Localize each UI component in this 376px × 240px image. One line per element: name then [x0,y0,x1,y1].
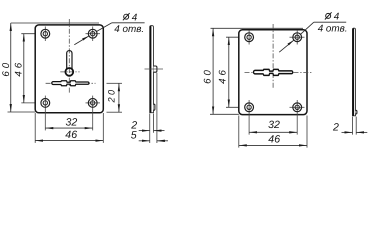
ext lines 2 r [352,117,354,135]
svg-text:4: 4 [132,12,138,23]
svg-text:4 отв.: 4 отв. [114,24,144,35]
leader line plate2 [279,40,294,52]
key profile cutout plate1 [52,81,89,86]
vertical centerline plate1 [68,19,70,94]
hole bottom-left p2 [245,103,254,112]
leader arrow plate1 [82,36,89,41]
plate 1 outline [35,25,103,113]
svg-text:46: 46 [268,133,280,145]
hole top-right [88,29,97,38]
ext lines 2/5 [149,114,151,144]
side bar plate1 [150,26,154,113]
vertical centerline plate2 [272,24,274,89]
side bar thick edge [150,26,152,113]
dim 2 side1 [139,130,150,132]
keyhole circle [65,68,73,76]
side centerline [145,68,164,70]
svg-text:20: 20 [107,87,117,103]
side bar plate2 [353,28,356,116]
hole crosshairs plate1 [45,27,100,131]
top extension line [11,22,99,24]
svg-text:60: 60 [1,60,12,77]
side bottom foot [154,104,155,110]
label shelf plate1 [112,22,145,24]
svg-text:4 отв.: 4 отв. [318,24,348,35]
dim 46 bottom plate1 [35,140,103,142]
dim 46 vertical [23,34,25,103]
dim 60 vertical r [212,28,214,114]
horizontal centerline circle [60,71,79,73]
leader arrow plate2 [288,40,294,45]
dim 2 side2 [342,131,353,133]
hole top-left [41,29,50,38]
dim 20 [118,83,120,112]
svg-text:4: 4 [334,12,340,23]
hole top-left p2 [245,33,254,42]
ext lines 46 left [21,33,52,35]
dim 20 ext lines [107,82,123,84]
svg-text:60: 60 [202,67,213,84]
dim 32 bottom plate2 [249,131,297,133]
dim 60 vertical [10,23,12,112]
svg-text:5: 5 [131,129,137,141]
bottom extension line r [210,113,239,115]
hole bottom-left [41,99,50,108]
label dia 4 plate2 [325,12,340,23]
dim 46 vertical r [228,37,230,107]
svg-text:2: 2 [332,122,339,134]
dim 32 bottom plate1 [45,127,92,129]
plate 2 outline [239,30,307,115]
svg-text:32: 32 [66,117,78,129]
ext lines 46 bottom plate1 [34,113,36,143]
hole bottom-right [88,99,97,108]
svg-text:46: 46 [218,67,229,84]
svg-text:46: 46 [65,129,77,141]
ext lines 46 r [226,36,256,38]
horizontal centerline key profile [46,82,96,84]
key profile cutout plate2 [254,69,293,75]
top extension line r [211,27,304,29]
side bar thick edge r [352,28,354,115]
dim 46 bottom plate2 [239,144,307,146]
svg-text:32: 32 [268,119,280,131]
side bottom foot r [356,110,357,114]
hole top-right p2 [293,33,302,42]
svg-text:46: 46 [13,60,24,77]
side bump (keyhole emboss) [154,66,157,72]
dim 5 side1 [139,140,150,142]
keyhole slot [67,51,72,70]
label dia 4 plate1 [123,12,138,23]
bottom extension line [8,111,36,113]
leader line plate1 [74,36,89,45]
ext lines 46 bottom plate2 [238,116,240,148]
label shelf plate2 [314,21,346,23]
horizontal centerline plate2 [245,71,314,73]
hole crosshairs plate2 [249,30,304,135]
hole bottom-right p2 [293,103,302,112]
